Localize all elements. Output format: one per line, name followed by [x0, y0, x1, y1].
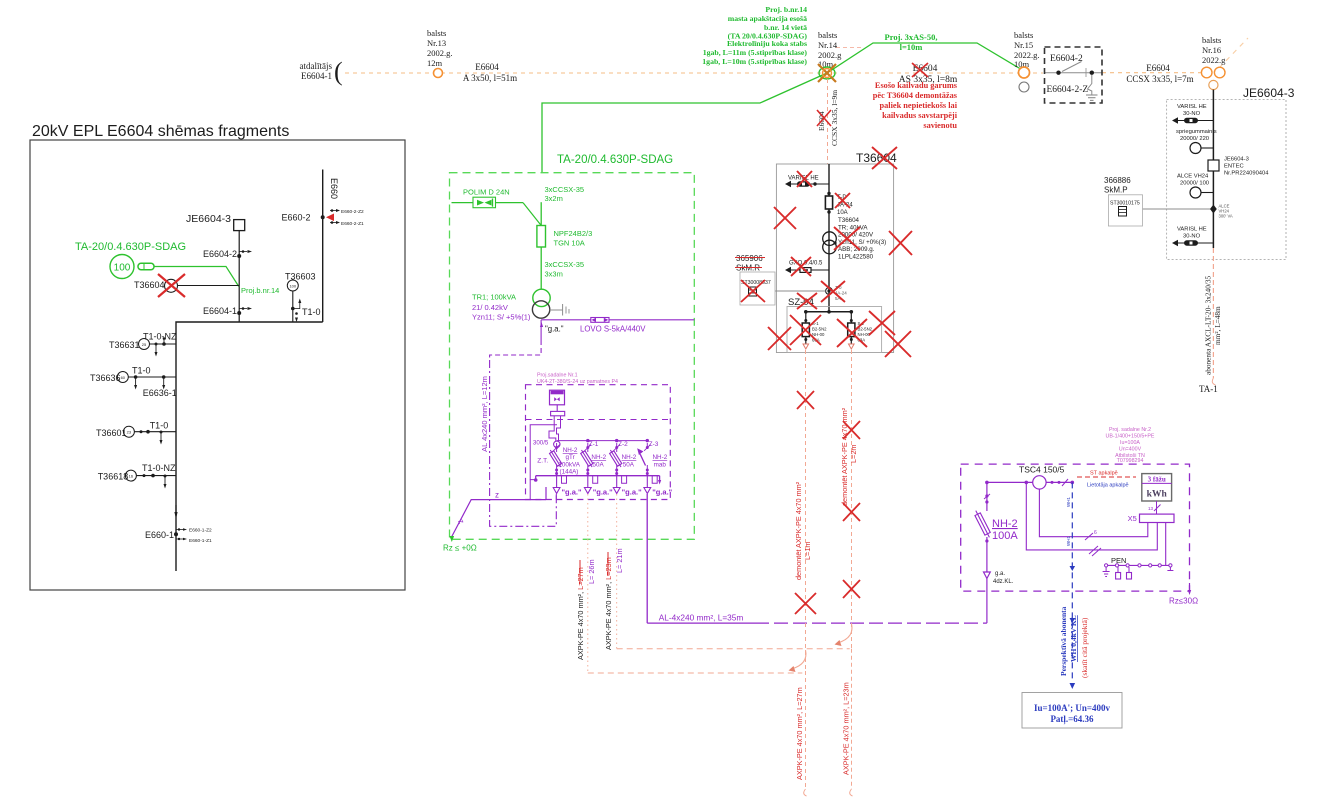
svg-text:Proj. 3xAS-50,: Proj. 3xAS-50,: [885, 32, 938, 42]
svg-text:LOVO S-5kA/440V: LOVO S-5kA/440V: [580, 325, 646, 334]
svg-text:Yzn11; S/ +5%(1): Yzn11; S/ +5%(1): [472, 313, 531, 322]
svg-text:Nr.16: Nr.16: [1202, 45, 1221, 55]
svg-text:Proj. b.nr.14: Proj. b.nr.14: [765, 5, 807, 14]
svg-text:Proj.sadalne Nr.1: Proj.sadalne Nr.1: [537, 373, 578, 379]
svg-text:E6604: E6604: [1146, 63, 1170, 73]
svg-text:100: 100: [114, 263, 131, 274]
svg-text:TA-1: TA-1: [1199, 384, 1218, 394]
svg-text:NH-2: NH-2: [992, 518, 1018, 530]
svg-text:g.a.: g.a.: [995, 571, 1005, 577]
svg-text:T1-0: T1-0: [302, 307, 321, 317]
svg-text:L= 21m: L= 21m: [615, 548, 624, 573]
svg-text:365906: 365906: [736, 254, 763, 263]
svg-text:NH-00: NH-00: [812, 332, 825, 337]
svg-text:demontēt AXPK-PE 4x70 mm²: demontēt AXPK-PE 4x70 mm²: [794, 481, 803, 580]
svg-text:20000/ 100: 20000/ 100: [1180, 181, 1209, 187]
svg-text:100A: 100A: [992, 530, 1018, 542]
svg-text:T36603: T36603: [285, 272, 316, 282]
svg-text:WH 0,4kV KL: WH 0,4kV KL: [1069, 615, 1078, 662]
svg-text:E660-2: E660-2: [281, 213, 310, 223]
svg-text:PEN: PEN: [1111, 556, 1126, 565]
svg-text:300/5: 300/5: [533, 439, 549, 446]
svg-text:NPF24B2/3: NPF24B2/3: [554, 229, 593, 238]
svg-text:E660-2-Z2: E660-2-Z2: [341, 209, 364, 215]
svg-text:savienotu: savienotu: [923, 121, 957, 130]
svg-text:Rz≤30Ω: Rz≤30Ω: [1169, 597, 1198, 606]
svg-text:E660-1: E660-1: [145, 530, 174, 540]
svg-text:Iu=100A: Iu=100A: [1120, 440, 1140, 446]
svg-text:SkM.P: SkM.P: [1104, 186, 1128, 195]
svg-text:"g.a.": "g.a.": [652, 488, 672, 497]
svg-text:20000/ 220: 20000/ 220: [1180, 136, 1209, 142]
svg-text:A 3x50, l=51m: A 3x50, l=51m: [463, 73, 517, 83]
svg-text:T1-0-NZ: T1-0-NZ: [143, 332, 177, 342]
svg-text:3x2m: 3x2m: [545, 194, 563, 203]
svg-text:T36636: T36636: [90, 373, 121, 383]
svg-text:X5: X5: [1128, 514, 1137, 523]
svg-text:(skatīt citā projektā): (skatīt citā projektā): [1080, 617, 1089, 678]
svg-text:E660-2-Z1: E660-2-Z1: [341, 221, 364, 227]
svg-text:balsts: balsts: [1014, 30, 1033, 40]
svg-text:"g.a.": "g.a.": [593, 488, 613, 497]
svg-text:T07998294: T07998294: [1117, 458, 1144, 464]
svg-text:TR1; 100kVA: TR1; 100kVA: [472, 293, 516, 302]
svg-text:JE6604-3: JE6604-3: [1224, 157, 1249, 163]
svg-text:Elektrolīniju koka stabs: Elektrolīniju koka stabs: [727, 39, 807, 48]
svg-text:VARISL HE: VARISL HE: [1177, 104, 1207, 110]
svg-text:E6636-1: E6636-1: [143, 388, 177, 398]
svg-text:6: 6: [1094, 530, 1097, 536]
svg-text:(: (: [334, 57, 343, 86]
svg-text:Nr.13: Nr.13: [427, 38, 446, 48]
svg-text:E660-1-Z1: E660-1-Z1: [189, 538, 212, 544]
svg-text:"g.a.": "g.a.": [545, 325, 564, 334]
svg-text:20kV EPL E6604 shēmas fragment: 20kV EPL E6604 shēmas fragments: [32, 123, 289, 140]
svg-text:Nr.15: Nr.15: [1014, 40, 1033, 50]
svg-text:VARISL HE: VARISL HE: [1177, 227, 1207, 233]
svg-text:B2-5N2: B2-5N2: [858, 327, 873, 332]
svg-text:balsts: balsts: [427, 28, 446, 38]
svg-text:CCSX 3x35, l=9m: CCSX 3x35, l=9m: [830, 90, 839, 146]
svg-text:kailvadus savstarpēji: kailvadus savstarpēji: [882, 111, 958, 120]
svg-text:3xCCSX-35: 3xCCSX-35: [545, 185, 585, 194]
svg-text:T36601: T36601: [96, 428, 127, 438]
svg-text:Perspektīvā abonenta: Perspektīvā abonenta: [1059, 606, 1068, 676]
svg-text:mab: mab: [654, 461, 667, 468]
svg-text:T1-0: T1-0: [150, 421, 169, 431]
svg-text:13: 13: [1148, 506, 1154, 511]
svg-text:Patļ.=64.36: Patļ.=64.36: [1050, 714, 1094, 725]
svg-text:NH-2: NH-2: [563, 447, 578, 454]
svg-text:E6604-1: E6604-1: [301, 71, 332, 81]
svg-text:2002.g.: 2002.g.: [427, 48, 453, 58]
svg-text:TR; 40kVA: TR; 40kVA: [838, 224, 868, 231]
svg-text:Esošo kailvadu garums: Esošo kailvadu garums: [875, 81, 958, 90]
svg-text:paliek nepietiekošs lai: paliek nepietiekošs lai: [880, 101, 958, 110]
svg-text:balsts: balsts: [1202, 35, 1221, 45]
svg-text:kWh: kWh: [1147, 490, 1168, 500]
svg-text:1gab, L=10m (5.stiprības klase: 1gab, L=10m (5.stiprības klase): [702, 57, 807, 66]
svg-text:TA-20/0.4.630P-SDAG: TA-20/0.4.630P-SDAG: [557, 154, 673, 166]
svg-text:ST apkalpē: ST apkalpē: [1090, 471, 1118, 477]
svg-text:25: 25: [142, 342, 147, 347]
svg-text:z: z: [495, 491, 499, 500]
svg-text:E6604-2-Z: E6604-2-Z: [1047, 85, 1089, 95]
svg-text:B2-5N2: B2-5N2: [812, 327, 827, 332]
svg-text:E6604-1: E6604-1: [203, 306, 237, 316]
svg-text:3 fāžu: 3 fāžu: [1148, 476, 1166, 484]
svg-text:T36631: T36631: [109, 340, 140, 350]
svg-text:NH-2: NH-2: [622, 454, 637, 461]
svg-text:NH-2: NH-2: [591, 454, 606, 461]
svg-text:TA-20/0.4.630P-SDAG: TA-20/0.4.630P-SDAG: [75, 241, 186, 253]
svg-text:WH1: WH1: [1066, 497, 1071, 507]
svg-text:(144A): (144A): [560, 468, 579, 475]
svg-text:50A: 50A: [593, 461, 605, 468]
svg-text:3xCCSX-35: 3xCCSX-35: [545, 260, 585, 269]
svg-text:l=10m: l=10m: [900, 42, 923, 52]
svg-text:3x3m: 3x3m: [545, 270, 563, 279]
svg-text:masta apakštacija esošā: masta apakštacija esošā: [728, 14, 807, 23]
svg-text:TSC4 150/5: TSC4 150/5: [1019, 465, 1065, 475]
svg-text:ENTEC: ENTEC: [1224, 164, 1244, 170]
svg-text:1LPL422580: 1LPL422580: [838, 254, 874, 261]
svg-text:4dz.KL.: 4dz.KL.: [993, 579, 1014, 585]
svg-text:30-NO: 30-NO: [1183, 111, 1201, 117]
svg-text:50A: 50A: [623, 461, 635, 468]
svg-text:E660: E660: [329, 178, 339, 199]
svg-text:"g.a.": "g.a.": [562, 488, 582, 497]
svg-text:pēc T36604 demontāžas: pēc T36604 demontāžas: [873, 91, 958, 100]
svg-text:T1-0: T1-0: [132, 366, 151, 376]
svg-text:E6604: E6604: [475, 62, 499, 72]
svg-text:T36618: T36618: [98, 472, 129, 482]
svg-text:AL-4x240 mm², L=35m: AL-4x240 mm², L=35m: [659, 613, 744, 623]
svg-text:NH-2: NH-2: [653, 454, 668, 461]
svg-text:UK4-2T-380/S-24 uz pamatnes P4: UK4-2T-380/S-24 uz pamatnes P4: [537, 379, 618, 385]
svg-text:Nr.14: Nr.14: [818, 40, 838, 50]
svg-text:AL 4x240 mm², L=12m: AL 4x240 mm², L=12m: [480, 376, 489, 452]
svg-text:T36604: T36604: [838, 217, 860, 224]
svg-text:30-NO: 30-NO: [1183, 234, 1201, 240]
svg-text:L=1m: L=1m: [803, 542, 812, 560]
svg-text:23: 23: [127, 430, 132, 435]
svg-text:T1-0-NZ: T1-0-NZ: [142, 463, 176, 473]
svg-text:Z.T.: Z.T.: [537, 457, 548, 464]
svg-text:100: 100: [289, 284, 296, 289]
svg-text:spriegummainis: spriegummainis: [1176, 129, 1217, 135]
svg-text:E6604-2: E6604-2: [1050, 54, 1083, 64]
svg-text:Un=400V: Un=400V: [1119, 447, 1142, 453]
svg-text:atdalītājs: atdalītājs: [300, 61, 333, 71]
svg-text:balsts: balsts: [818, 30, 837, 40]
svg-text:16: 16: [129, 474, 134, 479]
svg-text:"g.a.": "g.a.": [622, 488, 642, 497]
svg-text:100kVA: 100kVA: [558, 461, 580, 468]
svg-text:Proj.b.nr.14: Proj.b.nr.14: [241, 286, 279, 295]
svg-text:L= 26m: L= 26m: [587, 559, 596, 584]
svg-text:21/ 0.42kV: 21/ 0.42kV: [472, 303, 508, 312]
svg-text:E660-1-Z2: E660-1-Z2: [189, 528, 212, 534]
svg-text:Z-1: Z-1: [589, 441, 599, 448]
svg-text:300' VA: 300' VA: [1219, 214, 1233, 219]
svg-text:mm², L=48m: mm², L=48m: [1213, 306, 1222, 345]
svg-text:12m: 12m: [427, 58, 443, 68]
svg-text:UB-1/400+150/5+PE: UB-1/400+150/5+PE: [1106, 434, 1155, 440]
svg-text:E6604-2: E6604-2: [203, 249, 237, 259]
svg-text:JE6604-3: JE6604-3: [1243, 86, 1295, 100]
svg-text:10A: 10A: [837, 210, 848, 216]
svg-text:L=2m: L=2m: [849, 445, 858, 463]
svg-text:1gab, L=11m (5.stiprības klase: 1gab, L=11m (5.stiprības klase): [703, 48, 808, 57]
svg-text:Nr.PR224090404: Nr.PR224090404: [1224, 171, 1269, 177]
svg-text:JE6604-3: JE6604-3: [186, 213, 231, 225]
svg-text:TGN 10A: TGN 10A: [554, 239, 585, 248]
svg-text:60: 60: [121, 375, 126, 380]
svg-text:366886: 366886: [1104, 176, 1131, 185]
svg-text:WH1: WH1: [1066, 536, 1071, 546]
svg-text:abonenta AXCL-LT-20- 3x240/35: abonenta AXCL-LT-20- 3x240/35: [1204, 275, 1213, 375]
svg-text:CCSX 3x35, l=7m: CCSX 3x35, l=7m: [1126, 74, 1193, 84]
svg-text:AXPK-PE 4x70 mm², L=23m: AXPK-PE 4x70 mm², L=23m: [842, 682, 851, 775]
svg-text:ST30010175: ST30010175: [1110, 201, 1140, 207]
svg-text:POLIM D 24N: POLIM D 24N: [463, 188, 510, 197]
svg-text:T36604: T36604: [134, 280, 165, 290]
svg-text:Lietotāja apkalpē: Lietotāja apkalpē: [1087, 483, 1129, 489]
svg-text:AXPK-PE 4x70 mm², L=27m: AXPK-PE 4x70 mm², L=27m: [795, 687, 804, 780]
svg-text:Rz ≤ +0Ω: Rz ≤ +0Ω: [443, 544, 477, 553]
svg-text:Proj. sadalne Nr.2: Proj. sadalne Nr.2: [1109, 427, 1151, 433]
svg-text:gTr: gTr: [566, 454, 575, 461]
svg-text:ALCE VH24: ALCE VH24: [1177, 174, 1209, 180]
svg-text:Iu=100A'; Un=400v: Iu=100A'; Un=400v: [1034, 703, 1111, 713]
svg-text:2022.g: 2022.g: [1202, 55, 1226, 65]
